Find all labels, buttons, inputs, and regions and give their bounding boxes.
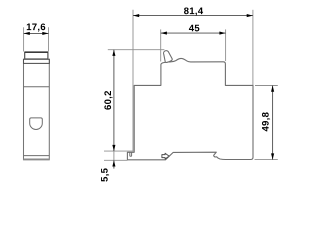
arrow right of 45 bbox=[219, 32, 225, 35]
front view: bottom thick edge bbox=[23, 158, 49, 160]
arrow left of 81,4 bbox=[133, 14, 139, 17]
side view: extension line 81,4 right bbox=[252, 10, 254, 85]
front view: dimension line 17,6 bbox=[24, 32, 49, 34]
front view: lip band bbox=[24, 59, 50, 63]
side view: dimension line 81,4 bbox=[133, 15, 253, 17]
front view: arrow left of 17,6 bbox=[24, 32, 30, 35]
dim 60,2: dimension line bbox=[113, 50, 115, 151]
dim 5,5: lower arrow tail bbox=[113, 160, 115, 168]
front view: extension line left bbox=[23, 27, 25, 51]
label 49,8 bbox=[262, 112, 270, 131]
arrow bottom of 60,2 bbox=[112, 145, 115, 151]
front view: top cap dark top edge bbox=[24, 51, 48, 53]
side view: dimension line 45 bbox=[161, 32, 226, 34]
front view: top cap bbox=[25, 52, 48, 59]
dim 5,5: bottom extension line bbox=[104, 159, 128, 161]
side view: extension line 45 left bbox=[160, 29, 162, 61]
arrow bottom of 49,8 bbox=[271, 153, 274, 159]
label 60,2 bbox=[104, 91, 112, 110]
label 81,4 bbox=[184, 7, 203, 15]
label 5,5 bbox=[101, 168, 109, 181]
arrow left of 45 bbox=[161, 32, 167, 35]
dim 49,8: top extension line bbox=[255, 85, 278, 87]
arrow up of 5,5 bbox=[112, 160, 115, 166]
arrow right of 81,4 bbox=[247, 14, 253, 17]
side view: extension line 45 right bbox=[225, 29, 227, 61]
dim 60,2: bottom extension line bbox=[104, 150, 134, 152]
arrow top of 49,8 bbox=[271, 86, 274, 92]
front view: body bbox=[24, 59, 50, 159]
dim 60,2: top extension line bbox=[108, 49, 165, 51]
dim 49,8: dimension line bbox=[272, 86, 274, 160]
side view: clip slot notch bbox=[130, 152, 132, 156]
front view: arrow right of 17,6 bbox=[42, 32, 48, 35]
side view: toggle lever bbox=[164, 51, 173, 63]
front view: foot line bbox=[24, 155, 50, 157]
dim 49,8: bottom extension line bbox=[255, 159, 278, 161]
side view: extension line 81,4 left bbox=[132, 10, 134, 152]
side view: release arrow symbol bbox=[162, 153, 169, 159]
arrow top of 60,2 bbox=[112, 50, 115, 56]
side view: housing outline bbox=[127, 58, 253, 159]
label 17,6 bbox=[27, 23, 45, 31]
label 45 bbox=[189, 25, 199, 32]
dim 5,5: connecting line bbox=[113, 151, 115, 160]
front view: extension line right bbox=[48, 27, 50, 51]
front view: divider line bbox=[24, 86, 50, 88]
front view: marking window bbox=[30, 118, 43, 130]
